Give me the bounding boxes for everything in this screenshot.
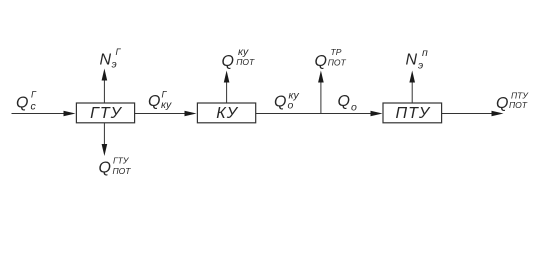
arrowhead into KU <box>185 111 197 117</box>
svg-text:Q: Q <box>222 53 234 70</box>
svg-text:ПОТ: ПОТ <box>328 58 347 68</box>
svg-text:ПОТ: ПОТ <box>509 100 528 110</box>
svg-text:Г: Г <box>31 90 37 100</box>
block KU (waste-heat boiler) <box>197 103 255 123</box>
label Q_ku^g heat to boiler <box>148 90 172 111</box>
svg-text:Q: Q <box>338 93 350 110</box>
label Q_pot^tr transport losses <box>315 47 347 70</box>
svg-text:Q: Q <box>274 93 286 110</box>
svg-text:N: N <box>100 51 112 68</box>
svg-text:с: с <box>31 101 37 113</box>
wire GTU down losses <box>103 123 105 145</box>
arrowhead up Q loss transport <box>318 71 324 83</box>
svg-text:Q: Q <box>496 95 508 112</box>
arrowhead into GTU <box>64 111 76 117</box>
svg-text:о: о <box>351 101 357 113</box>
svg-text:п: п <box>422 47 428 59</box>
arrowhead up Q loss ku <box>224 71 230 83</box>
svg-text:ПОТ: ПОТ <box>236 57 255 67</box>
label Q_c^g fuel heat input <box>16 90 37 113</box>
label N_e^g GTU electric power <box>100 47 122 71</box>
arrowhead into PTU <box>371 111 383 117</box>
svg-text:ГТУ: ГТУ <box>90 105 122 122</box>
svg-text:Q: Q <box>99 160 111 177</box>
wire node up transport losses <box>320 82 322 114</box>
wire GTU up to N <box>103 80 105 103</box>
wire GTU to KU <box>135 113 188 115</box>
label Q_o heat to PTU <box>338 93 358 114</box>
svg-text:э: э <box>418 59 423 71</box>
svg-text:ПТУ: ПТУ <box>396 105 431 122</box>
wire KU up losses <box>226 82 228 103</box>
svg-text:Г: Г <box>116 47 122 57</box>
arrowhead output right <box>492 111 504 117</box>
block PTU (steam turbine unit) <box>383 103 442 123</box>
wire KU to PTU (through node) <box>256 113 373 115</box>
wire PTU output <box>442 113 494 115</box>
wire fuel input to GTU <box>12 113 67 115</box>
wire PTU up to N <box>411 82 413 103</box>
label Q_poth^GTU losses <box>99 156 132 177</box>
svg-text:Q: Q <box>16 95 28 112</box>
arrowhead down Q loss gtu <box>102 144 108 156</box>
arrowhead up N gtu <box>102 69 108 81</box>
arrowhead up N ptu <box>409 71 415 83</box>
svg-text:N: N <box>406 51 418 68</box>
svg-text:ку: ку <box>161 99 172 111</box>
svg-text:о: о <box>288 100 294 112</box>
label Q_pot^PTU output losses <box>496 91 529 112</box>
label Q_o^ku boiler output heat <box>274 89 299 111</box>
svg-text:ПОТ: ПОТ <box>113 166 132 176</box>
svg-text:Q: Q <box>315 53 327 70</box>
svg-text:ТР: ТР <box>331 47 342 57</box>
svg-text:ГТУ: ГТУ <box>113 156 130 166</box>
label Q_pot^ku boiler losses <box>222 46 255 70</box>
svg-text:КУ: КУ <box>216 105 238 122</box>
label N_e^p PTU electric power <box>406 47 429 71</box>
svg-text:Q: Q <box>148 93 160 110</box>
block GTU (gas turbine unit) <box>76 103 134 123</box>
svg-text:э: э <box>112 59 117 71</box>
